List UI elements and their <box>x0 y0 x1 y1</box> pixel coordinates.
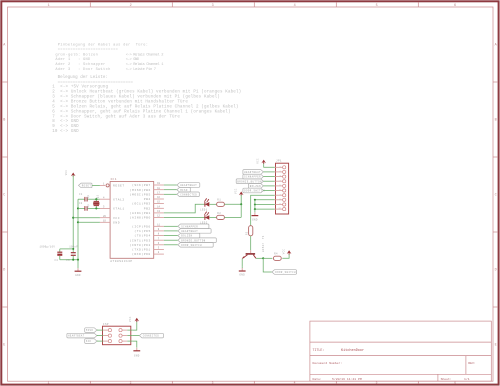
capacitor C3 <box>66 246 78 262</box>
ground symbol at ISP <box>133 347 140 357</box>
wire LED2 to R2 <box>209 216 216 218</box>
frame row letters A-E <box>3 44 497 348</box>
svg-text:GND: GND <box>113 221 120 224</box>
svg-text:7 <-> Door Switch, geht auf A: 7 <-> Door Switch, geht auf Ader 3 aus d… <box>52 114 180 119</box>
svg-text:7: 7 <box>279 193 280 196</box>
supply symbol VCC at ISP <box>129 316 139 322</box>
svg-text:XTAL2: XTAL2 <box>113 198 125 201</box>
flag net SCHNAPPER at pin11 <box>164 224 209 229</box>
ic IC1 right pins PB and PD <box>130 182 164 256</box>
wire junction down to DOOR_SWITCH flag <box>263 258 272 272</box>
svg-text:VCC: VCC <box>113 217 120 220</box>
svg-text:(T0)PD4: (T0)PD4 <box>134 234 150 238</box>
transistor T1 BC547 <box>242 235 265 259</box>
svg-text:Q1: Q1 <box>97 195 100 199</box>
svg-text:3: 3 <box>212 4 214 8</box>
svg-text:AT90S2313P: AT90S2313P <box>110 260 132 263</box>
wire RESET flag to IC pin 1 <box>92 184 100 186</box>
svg-text:RESET: RESET <box>113 185 125 188</box>
wire R3 to T1 base <box>250 236 252 253</box>
node LED VCC junction <box>240 203 242 205</box>
svg-text:4: 4 <box>294 4 296 8</box>
svg-text:R3: R3 <box>245 231 248 235</box>
flag net SCHNAPPER at JP1 pin3 <box>243 174 275 179</box>
wire T1 emitter to ground <box>241 259 243 267</box>
svg-text:2 <-> Unlock Heartbeat (grüne: 2 <-> Unlock Heartbeat (grünes Kabel) ve… <box>52 90 241 95</box>
ground symbol at JP1 <box>252 212 259 221</box>
svg-text:1000µ/16V: 1000µ/16V <box>40 246 56 249</box>
ground symbol at T1 emitter <box>239 267 246 277</box>
svg-text:HEARTBEAT: HEARTBEAT <box>180 184 197 187</box>
svg-text:C2: C2 <box>79 202 83 205</box>
svg-text:2: 2 <box>130 4 132 8</box>
svg-text:R4: R4 <box>274 253 278 256</box>
svg-text:DOOR_SWITCH: DOOR_SWITCH <box>275 271 296 274</box>
svg-text:CONNECTED: CONNECTED <box>143 335 160 338</box>
flag net DOOR_SWITCH at T1 <box>272 270 297 275</box>
node C3-bottom junction <box>72 259 74 261</box>
svg-text:Document Number:: Document Number: <box>313 361 343 365</box>
svg-text:BOLZEN: BOLZEN <box>250 185 261 188</box>
svg-text:6: 6 <box>454 4 456 8</box>
wire JP1 pin7 down to R3 <box>251 195 275 226</box>
node GND-rail-bottom junction <box>77 259 79 261</box>
svg-text:10 <-> GND: 10 <-> GND <box>52 129 79 134</box>
svg-text:IC1: IC1 <box>110 178 117 181</box>
svg-text:SCHNAPPER: SCHNAPPER <box>181 225 198 228</box>
svg-text:REV:: REV: <box>468 361 476 365</box>
svg-text:8 <-> GND: 8 <-> GND <box>52 119 79 124</box>
svg-text:9 <-> GND: 9 <-> GND <box>52 124 79 129</box>
wire JP1 pin1 to VCC <box>264 163 275 167</box>
svg-text:<-> Relais Channel 2: <-> Relais Channel 2 <box>126 52 163 57</box>
notes text block: cable pin assignment <box>55 43 164 72</box>
node JP1 gnd junction pin8 <box>254 199 256 201</box>
svg-text:1 <-> +5V Versorgung: 1 <-> +5V Versorgung <box>52 85 108 90</box>
flag net BOLZEN at JP1 pin5 <box>249 184 275 189</box>
svg-text:BOLZEN: BOLZEN <box>181 235 192 238</box>
node JP1 gnd junction pin10 <box>254 208 256 210</box>
led LED1 <box>200 198 209 211</box>
wire R2 to VCC junction <box>224 216 241 218</box>
wire T1 collector to junction <box>256 257 263 259</box>
node crystal-XTAL1 junction <box>95 207 97 209</box>
svg-text:(TXD)PD1: (TXD)PD1 <box>132 248 151 252</box>
svg-text:LED1: LED1 <box>200 208 208 211</box>
svg-text:JP1: JP1 <box>276 160 282 163</box>
svg-text:Belegung der Leiste:: Belegung der Leiste: <box>58 75 108 80</box>
svg-text:BRONZE_BUTTON: BRONZE_BUTTON <box>181 239 206 242</box>
svg-text:(MISO)PB6: (MISO)PB6 <box>130 188 151 192</box>
ic U IC1 AT90S2313 body <box>110 178 154 263</box>
connector JP2 ISP 2x3 header <box>97 323 133 345</box>
svg-text:(AIN1)PB1: (AIN1)PB1 <box>130 211 151 215</box>
resistor R2 <box>217 212 225 220</box>
svg-text:Pinbelegung der Kabel aus der: Pinbelegung der Kabel aus der Türe: <box>58 43 148 48</box>
flag net HEARTBEAT at ISP <box>67 333 98 338</box>
svg-text:KitchenDoor: KitchenDoor <box>341 348 364 353</box>
wire ISP pin6 to GND <box>133 341 137 347</box>
node crystal-XTAL2 junction <box>95 198 97 200</box>
crystal Q1 <box>93 195 99 209</box>
svg-text:C4: C4 <box>55 259 59 262</box>
flag net HEARTBEAT at pin9 <box>164 229 211 234</box>
flag net MISO at pin18 <box>164 187 190 192</box>
svg-text:1: 1 <box>48 381 50 385</box>
svg-text:DOOR_SWITCH: DOOR_SWITCH <box>244 190 265 193</box>
ground symbol below C3/C4 <box>75 260 82 277</box>
wire JP1 pin8 to GND rail <box>255 199 275 201</box>
svg-text:D: D <box>3 269 5 273</box>
svg-text:1: 1 <box>48 4 50 8</box>
flag net BOLZEN at pin8 <box>164 233 200 238</box>
svg-text:9: 9 <box>279 202 280 205</box>
svg-text:2: 2 <box>279 170 280 173</box>
svg-text:5/20/16 11:41 PM: 5/20/16 11:41 PM <box>332 377 362 381</box>
wire C4 top connection <box>60 248 73 250</box>
wire VCC junction down to R2 row <box>240 204 242 217</box>
flag net BRONZE_BUTTON at pin7 <box>164 238 216 243</box>
svg-text:TITLE:: TITLE: <box>313 348 325 352</box>
svg-text:SCK: SCK <box>86 340 92 343</box>
svg-text:GND: GND <box>75 274 81 277</box>
svg-text:CONNECTED: CONNECTED <box>180 193 197 196</box>
node GND rail XTAL1 junction <box>77 207 79 209</box>
wire JP1 gnd vertical <box>254 200 256 213</box>
svg-text:Sheet:: Sheet: <box>441 377 452 381</box>
capacitor C1 <box>79 193 90 201</box>
wire XTAL1 net <box>78 207 100 209</box>
wire GND rail to IC pin 10 <box>78 221 100 223</box>
svg-text:E: E <box>495 344 497 348</box>
svg-text:4 <-> Bronze Button verbunden: 4 <-> Bronze Button verbunden mit Handsh… <box>52 99 188 104</box>
wire VCC rail vertical <box>72 175 74 252</box>
ic IC1 left pins RESET XTAL2 XTAL1 VCC GND <box>100 183 125 225</box>
svg-text:PB4: PB4 <box>144 198 151 201</box>
flag net MISO at ISP <box>85 328 98 333</box>
supply symbol VCC at JP1 <box>256 158 266 164</box>
wire IC pin13 to LED1 <box>164 204 205 213</box>
wire R1 to VCC junction <box>224 203 241 205</box>
svg-text:VCC: VCC <box>256 158 259 164</box>
notes text block: terminal strip assignment <box>52 75 241 134</box>
svg-text:(INT0)PD2: (INT0)PD2 <box>130 243 151 247</box>
supply symbol VCC near IC <box>65 170 76 177</box>
wire JP1 pin10 to GND rail <box>255 208 275 210</box>
svg-text:E: E <box>3 344 5 348</box>
node GND rail pin10 junction <box>77 221 79 223</box>
capacitor C4 electrolytic <box>40 246 63 262</box>
flag net HEARTBEAT at pin19 <box>164 183 200 188</box>
wire LED1 to R1 <box>209 203 216 205</box>
svg-text:<-> Relais Channel 1: <-> Relais Channel 1 <box>126 62 164 67</box>
svg-text:<-> GND: <-> GND <box>126 57 140 62</box>
flag net DOOR_SWITCH at pin6 <box>164 243 213 248</box>
svg-text:PB2: PB2 <box>144 207 151 210</box>
node VCC-C3 junction <box>72 248 74 250</box>
svg-text:GND: GND <box>239 274 245 277</box>
svg-text:(T1)PD5: (T1)PD5 <box>134 229 150 233</box>
title block frame <box>310 321 491 381</box>
svg-text:Ader 2 : Schnapper: Ader 2 : Schnapper <box>55 62 105 67</box>
svg-text:3: 3 <box>212 381 214 385</box>
svg-text:Ader 1 : GND: Ader 1 : GND <box>55 57 91 62</box>
svg-text:BRONZE_BUTTON: BRONZE_BUTTON <box>237 180 262 183</box>
svg-text:3 <-> Schnapper (blaues Kabel: 3 <-> Schnapper (blaues Kabel) verbunden… <box>52 95 220 100</box>
svg-text:(INT1)PD3: (INT1)PD3 <box>130 238 151 242</box>
svg-text:VCC: VCC <box>65 170 68 176</box>
wire ISP pin2 to VCC <box>133 322 137 330</box>
wire C4/C3 bottom to GND rail <box>60 259 78 261</box>
supply symbol VCC above LED resistors <box>234 188 243 204</box>
wire R4 to VCC <box>282 254 289 258</box>
node VCC-pin20 junction <box>72 217 74 219</box>
supply symbol VCC at R4 <box>282 249 291 255</box>
svg-text:BC547 T1: BC547 T1 <box>262 235 265 252</box>
svg-text:HEARTBEAT: HEARTBEAT <box>68 335 85 338</box>
svg-text:(RXD)PD0: (RXD)PD0 <box>132 252 151 256</box>
svg-text:ISP: ISP <box>103 323 109 326</box>
wire ISP pin4 to flag <box>133 335 140 337</box>
svg-text:========================: ======================== <box>58 48 118 52</box>
svg-text:grün-gelb: Bolzen: grün-gelb: Bolzen <box>55 52 98 57</box>
svg-text:<-> Leiste Pin 7: <-> Leiste Pin 7 <box>126 67 156 72</box>
svg-text:B: B <box>3 119 5 123</box>
svg-text:R1: R1 <box>217 199 221 202</box>
svg-text:MISO: MISO <box>180 189 188 192</box>
svg-text:HEARTBEAT: HEARTBEAT <box>244 171 261 174</box>
wire IC pin12 to LED2 <box>164 217 205 219</box>
flag net CONNECTED at ISP <box>139 333 163 338</box>
svg-text:SCHNAPPER: SCHNAPPER <box>244 176 261 179</box>
svg-text:C: C <box>495 194 497 198</box>
svg-text:B: B <box>495 119 497 123</box>
capacitor C2 <box>79 202 90 211</box>
wire JP1 pin9 to GND rail <box>255 204 275 206</box>
svg-text:22p: 22p <box>87 194 90 199</box>
svg-text:D: D <box>495 269 497 273</box>
svg-text:R2: R2 <box>217 212 221 215</box>
svg-text:==============================: ============================== <box>58 81 134 85</box>
flag net SCK at ISP <box>85 339 98 344</box>
flag net CONNECTED at pin17 <box>164 192 199 197</box>
svg-text:RESET: RESET <box>82 185 92 188</box>
svg-text:(SCK)PB7: (SCK)PB7 <box>132 183 151 187</box>
wire junction to R4 <box>263 257 272 259</box>
title block Document Number row <box>313 361 476 365</box>
svg-text:DOOR_SWITCH: DOOR_SWITCH <box>181 244 202 247</box>
svg-text:XTAL1: XTAL1 <box>113 208 125 211</box>
resistor R3 <box>245 226 252 236</box>
wire XTAL2 net <box>78 198 100 200</box>
node JP1 gnd junction pin9 <box>254 203 256 205</box>
svg-text:5: 5 <box>376 4 378 8</box>
svg-text:(AIN0)PB0: (AIN0)PB0 <box>130 216 151 220</box>
svg-text:1/1: 1/1 <box>464 377 470 381</box>
led LED2 <box>200 212 209 225</box>
svg-text:100nF: 100nF <box>69 246 78 249</box>
svg-text:5 <-> Bolzen Relais, geht auf: 5 <-> Bolzen Relais, geht auf Relais Pla… <box>52 104 238 109</box>
svg-text:MISO: MISO <box>86 329 93 332</box>
svg-text:Date:: Date: <box>313 377 322 381</box>
svg-text:VCC: VCC <box>234 188 237 194</box>
svg-text:22p: 22p <box>87 204 90 209</box>
flag net DOOR_SWITCH at JP1 pin6 <box>243 188 275 193</box>
resistor R1 <box>217 199 225 207</box>
svg-text:(OC1)PB3: (OC1)PB3 <box>132 202 151 206</box>
svg-text:2: 2 <box>130 381 132 385</box>
svg-text:C1: C1 <box>79 193 83 196</box>
flag net HEARTBEAT at JP1 pin2 <box>243 170 275 175</box>
title block Date row <box>313 377 470 381</box>
svg-text:(MOSI)PB5: (MOSI)PB5 <box>130 192 151 196</box>
svg-text:HEARTBEAT: HEARTBEAT <box>181 230 198 233</box>
svg-text:GND: GND <box>134 354 140 357</box>
svg-text:Ader 3 : Door Switch: Ader 3 : Door Switch <box>55 67 110 72</box>
svg-text:C: C <box>3 194 5 198</box>
wire VCC to IC pin 20 <box>73 217 100 219</box>
connector JP1 10-pin header <box>275 160 289 214</box>
resistor R4 <box>273 253 281 261</box>
node collector junction <box>262 257 264 259</box>
wire GND rail vertical <box>77 199 79 260</box>
svg-text:VCC: VCC <box>282 249 285 255</box>
svg-text:GND: GND <box>252 218 258 221</box>
flag net RESET <box>79 183 93 188</box>
svg-text:(ICP)PD6: (ICP)PD6 <box>132 224 151 228</box>
svg-text:6 <-> Schnapper, geht auf Rel: 6 <-> Schnapper, geht auf Relais Platine… <box>52 109 230 114</box>
flag net BRONZE_BUTTON at JP1 pin4 <box>236 179 275 184</box>
svg-text:VCC: VCC <box>129 316 132 322</box>
title block TITLE row <box>313 348 365 353</box>
svg-text:4: 4 <box>294 381 296 385</box>
